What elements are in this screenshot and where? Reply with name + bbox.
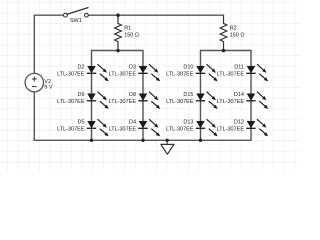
ground <box>161 140 174 154</box>
voltage source V2 (9 V) <box>25 73 53 91</box>
svg-text:LTL-307EE: LTL-307EE <box>217 99 245 105</box>
wire LED column 4 <box>250 51 252 141</box>
resistor R2 (150 ohm) <box>220 15 244 50</box>
svg-text:LTL-307EE: LTL-307EE <box>57 126 85 132</box>
node column3 bottom junction <box>199 139 202 142</box>
LED D13 (LTL-307EE) <box>166 119 218 136</box>
svg-text:D2: D2 <box>77 65 84 71</box>
svg-text:LTL-307EE: LTL-307EE <box>57 71 85 77</box>
svg-text:LTL-307EE: LTL-307EE <box>166 99 194 105</box>
svg-text:D11: D11 <box>234 65 244 71</box>
svg-text:D4: D4 <box>129 120 136 126</box>
wire LED column 2 <box>142 51 144 141</box>
LED D12 (LTL-307EE) <box>217 119 269 136</box>
LED D14 (LTL-307EE) <box>217 92 269 109</box>
svg-text:LTL-307EE: LTL-307EE <box>57 99 85 105</box>
svg-text:9 V: 9 V <box>44 84 53 90</box>
svg-text:LTL-307EE: LTL-307EE <box>109 99 137 105</box>
node column2 bottom junction <box>141 139 144 142</box>
wire right block bar <box>201 50 252 52</box>
svg-text:D14: D14 <box>234 92 244 98</box>
node ground junction <box>166 139 169 142</box>
wire top left segment <box>34 14 63 16</box>
svg-text:LTL-307EE: LTL-307EE <box>109 71 137 77</box>
svg-text:SW1: SW1 <box>70 18 82 24</box>
wire left block bar <box>92 50 144 52</box>
svg-text:R2: R2 <box>230 26 237 32</box>
wire bottom <box>34 139 251 141</box>
svg-text:LTL-307EE: LTL-307EE <box>217 126 245 132</box>
svg-text:LTL-307EE: LTL-307EE <box>109 126 137 132</box>
LED D10 (LTL-307EE) <box>166 64 218 81</box>
wire <box>0 0 300 171</box>
wire LED column 1 <box>91 51 93 141</box>
wire top right segment <box>88 14 223 16</box>
wire LED column 3 <box>200 51 202 141</box>
node R1 bottom junction <box>116 49 119 52</box>
LED D5 (LTL-307EE) <box>57 119 109 136</box>
svg-text:R1: R1 <box>124 26 131 32</box>
svg-text:D15: D15 <box>183 92 193 98</box>
LED D9 (LTL-307EE) <box>57 92 109 109</box>
svg-text:D8: D8 <box>129 92 136 98</box>
LED D11 (LTL-307EE) <box>217 64 269 81</box>
wire left vertical upper <box>33 15 35 73</box>
node column1 bottom junction <box>90 139 93 142</box>
svg-text:D5: D5 <box>77 120 84 126</box>
LED D2 (LTL-307EE) <box>57 64 109 81</box>
LED D4 (LTL-307EE) <box>109 119 161 136</box>
svg-text:D10: D10 <box>183 65 193 71</box>
svg-text:LTL-307EE: LTL-307EE <box>166 126 194 132</box>
LED D15 (LTL-307EE) <box>166 92 218 109</box>
svg-text:D12: D12 <box>234 120 244 126</box>
svg-text:D9: D9 <box>77 92 84 98</box>
svg-text:LTL-307EE: LTL-307EE <box>217 71 245 77</box>
svg-text:LTL-307EE: LTL-307EE <box>166 71 194 77</box>
svg-text:150 Ω: 150 Ω <box>230 33 245 39</box>
svg-text:D3: D3 <box>129 65 136 71</box>
node R2 bottom junction <box>222 49 225 52</box>
switch SW1 <box>64 8 89 24</box>
svg-text:150 Ω: 150 Ω <box>124 33 139 39</box>
resistor R1 (150 ohm) <box>115 15 139 50</box>
LED D3 (LTL-307EE) <box>109 64 161 81</box>
node R1 top junction <box>116 14 119 17</box>
LED D8 (LTL-307EE) <box>109 92 161 109</box>
svg-text:D13: D13 <box>183 120 193 126</box>
wire left vertical lower <box>33 92 35 141</box>
